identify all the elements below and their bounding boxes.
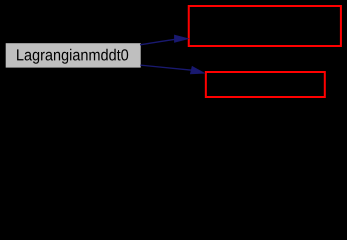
node bottom (truncated, red border) (206, 72, 325, 97)
wire (140, 65, 192, 70)
edge: Lagrangianmddt0 -> top node (arrow) (140, 35, 189, 45)
node Lagrangianmddt0 (current node, grey75 fill) (6, 43, 141, 67)
wire (140, 39, 175, 45)
edge: Lagrangianmddt0 -> bottom node (arrow) (140, 65, 204, 74)
arrowhead (174, 35, 188, 42)
arrowhead (190, 66, 204, 74)
node top (truncated, red border) (189, 6, 341, 46)
